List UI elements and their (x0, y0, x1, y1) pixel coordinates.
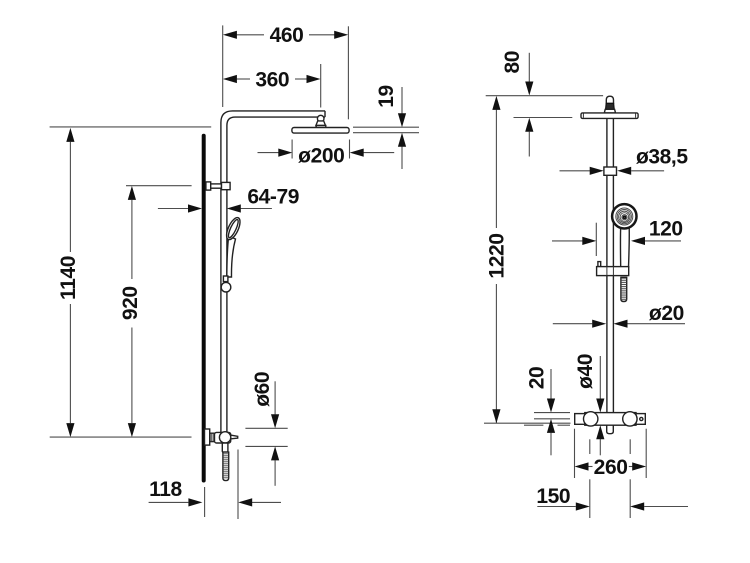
svg-text:19: 19 (375, 85, 398, 108)
svg-text:80: 80 (501, 51, 524, 74)
holder bracket on bar (598, 262, 601, 267)
riser pipe with top bend and arm (side view) (221, 111, 325, 433)
hand shower head circles (612, 204, 636, 228)
hose (side view, ribbed) (223, 452, 229, 481)
dim 120 (595, 223, 597, 256)
wall bracket of slide bar (206, 182, 211, 190)
arm ball joint (317, 115, 324, 122)
dim 19 (head thickness) (353, 126, 419, 128)
dim 80 (528, 53, 530, 82)
svg-text:150: 150 (536, 485, 570, 508)
dim ø200 (291, 140, 293, 159)
svg-text:920: 920 (119, 286, 142, 320)
dim 460 (222, 25, 224, 107)
svg-text:64-79: 64-79 (247, 186, 299, 209)
dim ø20 (553, 323, 593, 325)
slider ring on pipe (604, 167, 617, 175)
svg-text:460: 460 (270, 24, 304, 47)
dim 1140 (50, 126, 212, 128)
svg-text:ø40: ø40 (574, 354, 597, 389)
wall line (202, 136, 206, 481)
svg-text:ø38,5: ø38,5 (636, 146, 688, 169)
dim ø40 (599, 356, 601, 399)
hand shower (side view, hanging on bar) (227, 236, 236, 277)
dim 64-79 (wall to pipe) (158, 208, 188, 210)
valve outlet (607, 425, 614, 434)
dim 260 (574, 429, 576, 478)
thermostat valve (front view) (585, 413, 636, 426)
dim ø60 (valve diameter) (245, 427, 287, 429)
svg-text:ø20: ø20 (649, 302, 684, 325)
dim 920 (126, 185, 192, 187)
svg-text:118: 118 (149, 478, 182, 501)
svg-text:ø60: ø60 (251, 372, 274, 407)
svg-text:260: 260 (594, 456, 628, 479)
hand shower handle (front view) (620, 226, 629, 268)
svg-text:120: 120 (649, 218, 683, 241)
hose (front view, ribbed) (621, 277, 627, 301)
svg-text:20: 20 (525, 367, 548, 390)
bottom reference line (1140/920) (50, 436, 192, 438)
dim 118 (204, 487, 206, 517)
dim 1220 (495, 110, 497, 228)
dim 20 (pipe axis to valve top) (534, 412, 570, 414)
dim 360 (320, 64, 322, 108)
dim ø38,5 (560, 170, 591, 172)
dim 150 (589, 439, 591, 454)
shower head (front view) (581, 113, 638, 119)
svg-text:ø200: ø200 (298, 145, 344, 168)
riser pipe (front view) (606, 112, 608, 413)
mixer valve (side view) (205, 429, 210, 445)
svg-text:1140: 1140 (57, 256, 80, 300)
shower head disc (side view) (292, 128, 349, 134)
top knob (606, 96, 613, 103)
svg-text:1220: 1220 (485, 233, 508, 278)
svg-text:360: 360 (255, 68, 289, 91)
